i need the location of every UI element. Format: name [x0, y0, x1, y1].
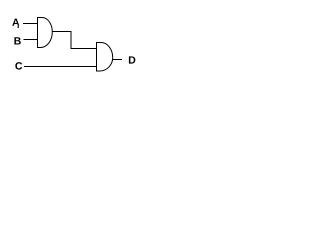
node B label [14, 37, 20, 44]
wire B input [24, 39, 38, 41]
stray serif tick after A [18, 26, 19, 28]
wire U1 output to U2 top input [52, 32, 96, 49]
and-gate U2 [97, 43, 113, 72]
node C label [15, 62, 22, 69]
and-gate U1 [38, 18, 53, 48]
node D label [129, 56, 135, 63]
wire U2 output [113, 59, 122, 61]
wire A input [23, 23, 38, 25]
wire C input [24, 66, 97, 68]
node A label [12, 19, 19, 26]
background [0, 0, 160, 109]
